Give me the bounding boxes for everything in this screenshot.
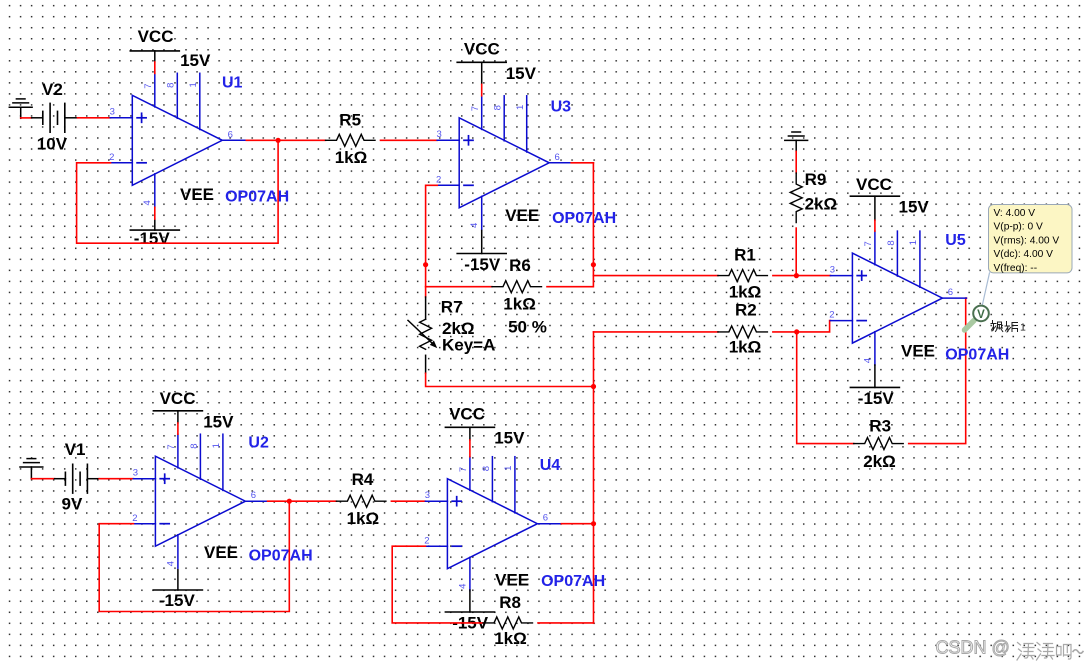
wire U1 out to R5 (278, 139, 325, 141)
ground (V2) (9, 99, 32, 118)
svg-text:U5: U5 (945, 232, 966, 249)
svg-text:VEE: VEE (204, 543, 238, 562)
svg-text:OP07AH: OP07AH (552, 210, 616, 227)
node R1/R9 junction (794, 273, 799, 278)
wire R4 to U4 pin3 (391, 500, 425, 502)
svg-text:1kΩ: 1kΩ (503, 295, 536, 314)
VEE symbol (U3) (457, 253, 506, 255)
wire R6 left (426, 286, 492, 288)
wire R2 to U5 pin2 (773, 321, 831, 332)
svg-text:V: V (977, 309, 985, 321)
op-amp U5 (829, 231, 966, 365)
VCC symbol (U2) (153, 410, 202, 412)
svg-text:R1: R1 (734, 246, 756, 265)
svg-text:-15V: -15V (159, 591, 196, 610)
svg-text:V(rms): 4.00 V: V(rms): 4.00 V (994, 235, 1060, 246)
VEE symbol (U1) (130, 229, 179, 231)
VCC symbol (U4) (445, 426, 494, 428)
wire R2 junction down to R3 (797, 332, 854, 444)
wire VCC to U2 pin7 (177, 423, 179, 434)
svg-text:50 %: 50 % (508, 318, 547, 337)
svg-text:VCC: VCC (464, 39, 500, 58)
svg-text:R3: R3 (869, 417, 891, 436)
wire R5 to U3 pin3 (381, 139, 438, 141)
svg-text:-15V: -15V (134, 229, 171, 248)
node U3 fb junction (423, 262, 428, 267)
node U3 out junction (591, 262, 596, 267)
svg-text:VCC: VCC (856, 175, 892, 194)
op-amp U4 (424, 457, 561, 591)
resistor R4 (336, 495, 386, 507)
wire R8 to mid vertical (538, 622, 594, 624)
svg-text:U3: U3 (551, 99, 572, 116)
svg-text:15V: 15V (899, 197, 930, 216)
VCC symbol (U3) (457, 61, 506, 63)
wire U1 feedback (77, 140, 279, 243)
svg-text:VCC: VCC (449, 404, 485, 423)
wire VCC to U5 pin7 (874, 220, 876, 231)
wire R7 top stub (425, 297, 427, 319)
VCC symbol (U1) (130, 50, 179, 52)
svg-text:R4: R4 (352, 470, 374, 489)
resistor R6 (492, 281, 542, 293)
svg-text:VEE: VEE (505, 206, 539, 225)
svg-text:CSDN @: CSDN @ (936, 638, 1010, 658)
svg-text:VEE: VEE (495, 571, 529, 590)
svg-text:15V: 15V (203, 412, 234, 431)
wire U2 output (268, 500, 290, 502)
wire VCC to U4 pin7 (469, 440, 471, 457)
node U4 out junction (591, 521, 596, 526)
svg-text:15V: 15V (494, 428, 525, 447)
wire R3 to U5 out (909, 298, 967, 444)
wire R6 right up to U3 out (547, 163, 593, 287)
svg-text:2kΩ: 2kΩ (805, 194, 838, 213)
probe leader line (982, 273, 989, 305)
ground (V1) (20, 459, 43, 478)
svg-text:R8: R8 (499, 593, 521, 612)
resistor R2 (718, 326, 768, 338)
svg-text:VCC: VCC (160, 389, 196, 408)
svg-text:OP07AH: OP07AH (541, 573, 605, 590)
svg-text:OP07AH: OP07AH (945, 346, 1009, 363)
probe circle (973, 306, 989, 322)
wire U1 output (246, 139, 278, 141)
svg-text:U4: U4 (540, 457, 561, 474)
svg-text:R5: R5 (339, 110, 361, 129)
svg-text:R6: R6 (509, 256, 531, 275)
svg-text:V(freq): --: V(freq): -- (994, 263, 1038, 274)
measurement tooltip box (989, 205, 1073, 273)
resistor R3 (854, 438, 904, 450)
resistor R1 (718, 270, 768, 282)
ground (R9) (785, 132, 808, 151)
svg-text:V1: V1 (65, 440, 86, 459)
svg-text:VEE: VEE (901, 341, 935, 360)
svg-text:VEE: VEE (180, 185, 214, 204)
svg-text:Key=A: Key=A (442, 336, 495, 355)
svg-text:V(dc): 4.00 V: V(dc): 4.00 V (994, 249, 1054, 260)
wire battery to U1 pin3 (65, 117, 78, 119)
wire mid vertical down to U4 out (593, 387, 595, 623)
svg-text:1kΩ: 1kΩ (729, 338, 762, 357)
wire VCC to pin7 (154, 62, 156, 73)
resistor R9 (790, 173, 802, 223)
wire U2 out to R4 (289, 500, 336, 502)
wire VEE to pin4 (154, 207, 156, 219)
wire ground to R9 (795, 151, 797, 173)
wire U3 out (571, 162, 593, 164)
svg-text:-15V: -15V (464, 255, 501, 274)
wire U3 pin2 feedback vertical (426, 185, 438, 297)
svg-text:OP07AH: OP07AH (225, 189, 289, 206)
wire V1 ground to battery (31, 478, 54, 480)
svg-text:V2: V2 (42, 80, 63, 99)
battery V1 (65, 464, 87, 494)
VCC symbol (U5) (850, 195, 899, 197)
battery V2 (43, 103, 65, 133)
wire battery to U2 pin3 (87, 478, 99, 480)
potentiometer R7 (420, 319, 432, 349)
op-amp U2 (132, 434, 269, 568)
svg-text:1kΩ: 1kΩ (347, 509, 380, 528)
probe tail (965, 321, 975, 331)
svg-text:VCC: VCC (138, 27, 174, 46)
VEE symbol (U2) (153, 589, 202, 591)
svg-text:OP07AH: OP07AH (249, 547, 313, 564)
wire V2 ground to battery (21, 117, 32, 119)
svg-text:1kΩ: 1kΩ (494, 629, 527, 648)
svg-text:1kΩ: 1kΩ (729, 283, 762, 302)
wire to R2 (594, 331, 718, 333)
svg-text:2kΩ: 2kΩ (863, 452, 896, 471)
wire R1 to U5 pin3 (773, 275, 831, 277)
svg-text:U1: U1 (222, 75, 243, 92)
R7 arrow (408, 320, 434, 345)
svg-text:R9: R9 (805, 170, 827, 189)
svg-text:15V: 15V (506, 64, 537, 83)
wire R9 to junction (795, 228, 797, 276)
wire R7 bottom to mid junction (426, 373, 594, 386)
VEE symbol (U4) (445, 611, 494, 613)
svg-text:1: 1 (1020, 322, 1026, 334)
op-amp U1 (109, 73, 246, 207)
svg-text:R2: R2 (735, 301, 757, 320)
svg-text:V(p-p): 0 V: V(p-p): 0 V (994, 222, 1043, 233)
svg-text:U2: U2 (248, 434, 269, 451)
svg-text:-15V: -15V (858, 389, 895, 408)
VEE symbol (U5) (850, 386, 899, 388)
svg-text:R7: R7 (441, 297, 463, 316)
wire U2 feedback (99, 501, 289, 611)
wire U3 node to R1 (593, 275, 718, 277)
resistor R5 (326, 134, 376, 146)
wire U4 output to mid vertical (561, 523, 593, 525)
node U2 out junction (287, 499, 292, 504)
node mid junction (591, 384, 596, 389)
node U1 out junction (276, 138, 281, 143)
resistor R8 (483, 617, 533, 629)
node R2 junction (794, 329, 799, 334)
wire R2 left vertical (593, 332, 595, 387)
wire U4 pin2 feedback (392, 546, 483, 623)
wire VCC to U3 pin7 (481, 84, 483, 95)
svg-text:1kΩ: 1kΩ (335, 148, 368, 167)
svg-text:V: 4.00 V: V: 4.00 V (994, 208, 1036, 219)
svg-text:10V: 10V (37, 134, 68, 153)
op-amp U3 (436, 96, 573, 230)
svg-text:9V: 9V (62, 495, 83, 514)
probe label 探针1 (991, 321, 1018, 333)
svg-text:15V: 15V (180, 51, 211, 70)
